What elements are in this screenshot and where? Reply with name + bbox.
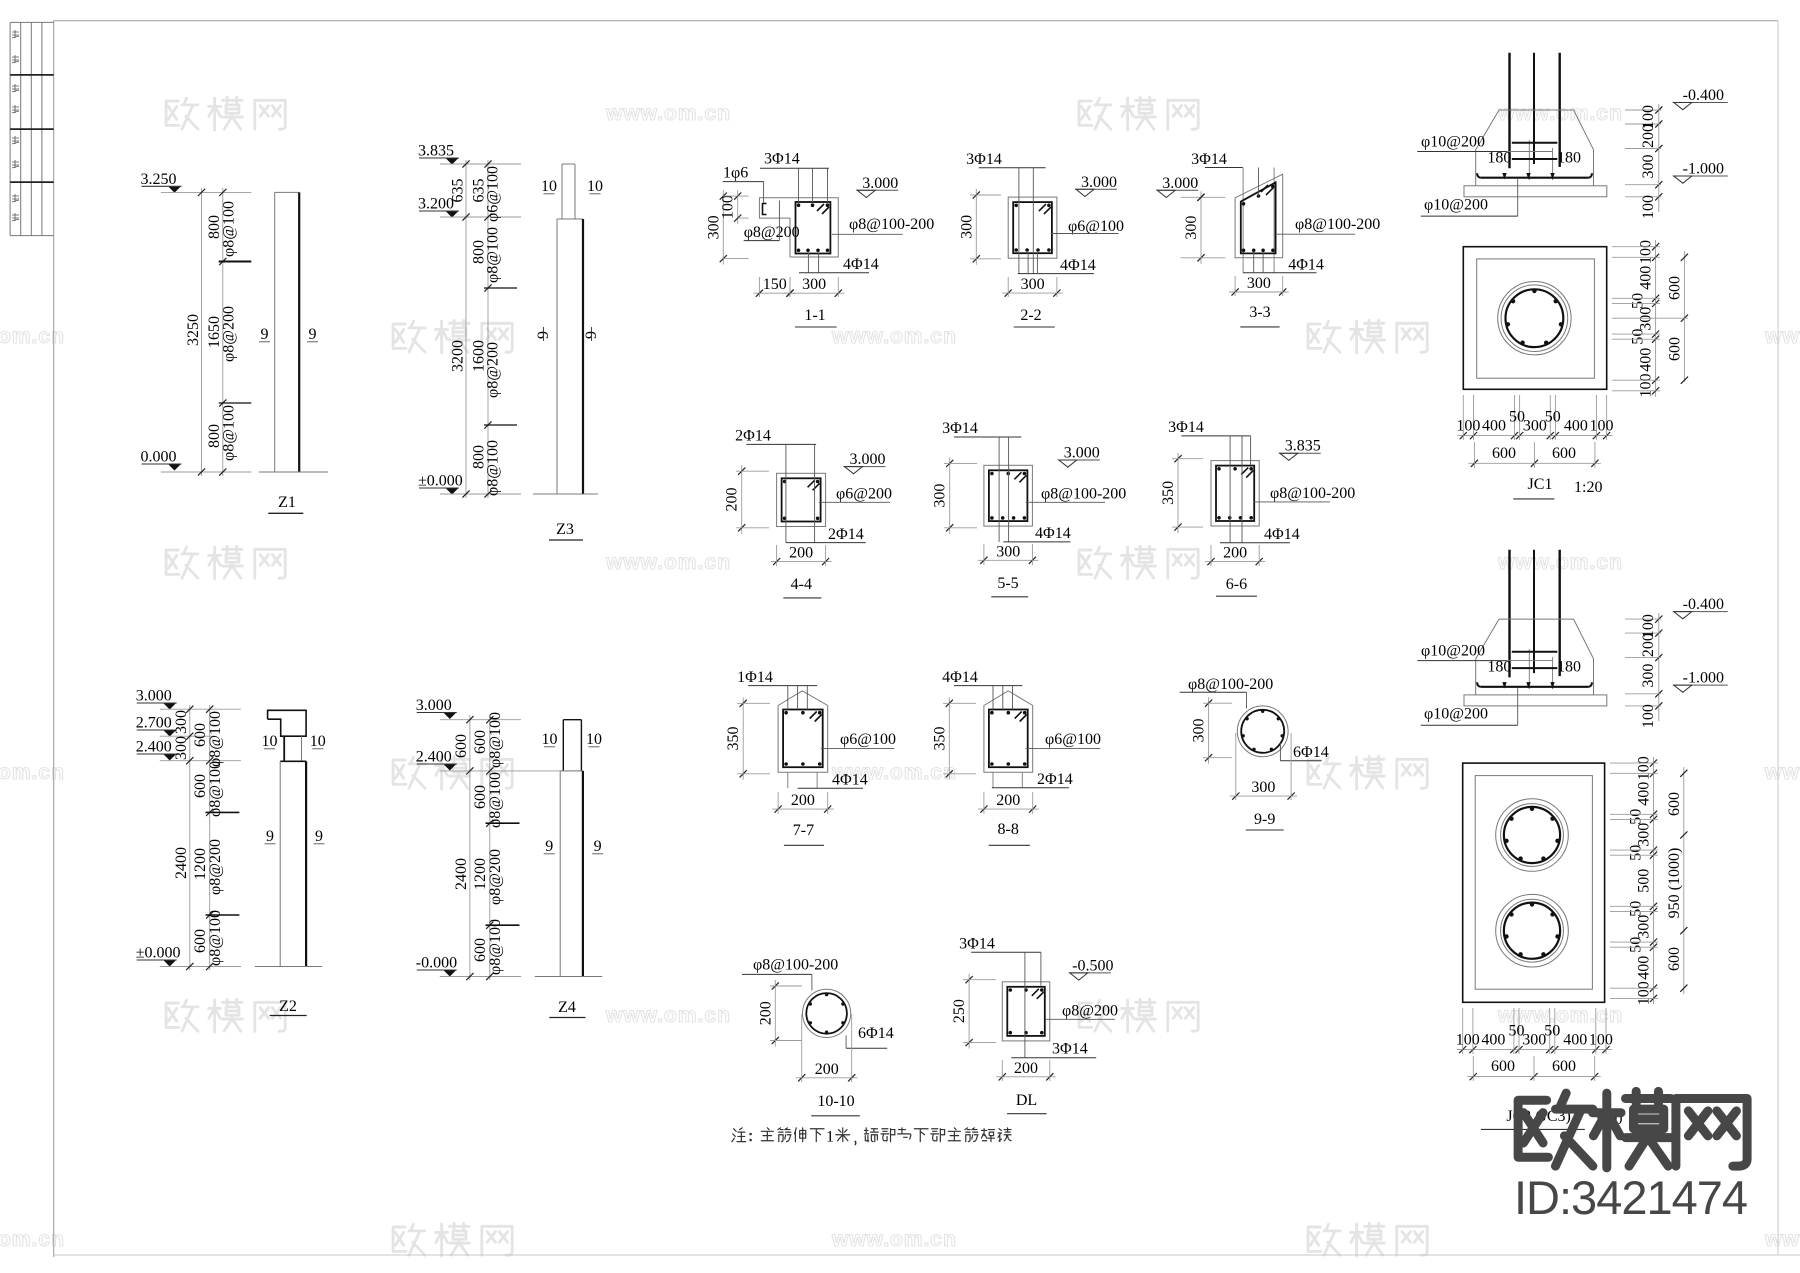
svg-text:9: 9	[309, 326, 317, 343]
svg-text:50: 50	[1630, 329, 1647, 345]
svg-text:φ6@100: φ6@100	[1068, 218, 1124, 235]
svg-text:3Φ14: 3Φ14	[1168, 419, 1204, 436]
svg-text:350: 350	[1160, 481, 1177, 505]
svg-text:4Φ14: 4Φ14	[832, 772, 868, 789]
svg-text:2Φ14: 2Φ14	[735, 428, 771, 445]
svg-text:3Φ14: 3Φ14	[1052, 1041, 1088, 1058]
svg-text:600: 600	[1552, 445, 1576, 462]
svg-text:DL: DL	[1016, 1092, 1037, 1109]
svg-text:300: 300	[1522, 1032, 1546, 1049]
svg-text:φ8@200: φ8@200	[487, 849, 504, 905]
svg-text:3.000: 3.000	[1162, 175, 1198, 192]
svg-text:300: 300	[1640, 664, 1657, 688]
svg-text:50: 50	[1630, 293, 1647, 309]
svg-text:φ8@100-200: φ8@100-200	[1041, 486, 1126, 503]
svg-text:400: 400	[1638, 348, 1655, 372]
svg-text:φ8@100: φ8@100	[221, 201, 238, 257]
svg-text:2.400: 2.400	[416, 749, 452, 766]
svg-text:0.000: 0.000	[141, 449, 177, 466]
svg-text:Z1: Z1	[278, 494, 296, 511]
svg-text:±0.000: ±0.000	[418, 473, 463, 490]
svg-text:www.om.cn: www.om.cn	[605, 102, 731, 125]
svg-text:6-6: 6-6	[1226, 576, 1247, 593]
svg-text:3250: 3250	[185, 314, 202, 346]
svg-text:200: 200	[1640, 633, 1657, 657]
svg-text:100: 100	[1640, 195, 1657, 219]
svg-text:300: 300	[1247, 275, 1271, 292]
svg-text:5-5: 5-5	[997, 575, 1018, 592]
svg-text:9: 9	[261, 326, 269, 343]
svg-text:100: 100	[1456, 1032, 1480, 1049]
svg-text:50: 50	[1628, 937, 1645, 953]
svg-text:300: 300	[1251, 779, 1275, 796]
svg-text:Z4: Z4	[558, 999, 576, 1016]
svg-text:500: 500	[1636, 869, 1653, 893]
svg-text:100: 100	[1456, 418, 1480, 435]
svg-text:2400: 2400	[453, 858, 470, 890]
svg-text:φ8@200: φ8@200	[1062, 1003, 1118, 1020]
svg-text:2400: 2400	[173, 847, 190, 879]
svg-text:-0.500: -0.500	[1072, 957, 1113, 974]
svg-text:950 (1000): 950 (1000)	[1666, 848, 1683, 919]
svg-text:400: 400	[1482, 418, 1506, 435]
svg-text:300: 300	[1636, 915, 1653, 939]
svg-text:300: 300	[1636, 823, 1653, 847]
svg-text:1φ6: 1φ6	[723, 165, 748, 182]
svg-text:φ6@100: φ6@100	[1045, 731, 1101, 748]
svg-text:φ8@100: φ8@100	[221, 405, 238, 461]
svg-text:300: 300	[958, 215, 975, 239]
svg-text:4Φ14: 4Φ14	[843, 256, 879, 273]
svg-text:10: 10	[541, 178, 557, 195]
svg-text:www.om.cn: www.om.cn	[0, 1228, 65, 1251]
svg-text:4Φ14: 4Φ14	[1060, 257, 1096, 274]
svg-text:-0.400: -0.400	[1683, 87, 1724, 104]
svg-text:10: 10	[542, 731, 558, 748]
svg-text:400: 400	[1636, 956, 1653, 980]
svg-text:φ8@100: φ8@100	[207, 761, 224, 817]
svg-text:2Φ14: 2Φ14	[1037, 771, 1073, 788]
svg-text:180: 180	[1487, 659, 1511, 676]
svg-text:50: 50	[1544, 1023, 1560, 1040]
svg-text:2Φ14: 2Φ14	[828, 526, 864, 543]
svg-text:10: 10	[587, 178, 603, 195]
svg-text:1: 1	[826, 1129, 834, 1146]
svg-text:300: 300	[1523, 418, 1547, 435]
svg-text:www.om.cn: www.om.cn	[1764, 761, 1800, 784]
svg-text:www.om.cn: www.om.cn	[0, 761, 65, 784]
svg-text:φ8@100: φ8@100	[485, 227, 502, 283]
svg-text:300: 300	[996, 543, 1020, 560]
svg-text:10: 10	[310, 733, 326, 750]
svg-text:φ8@100: φ8@100	[487, 712, 504, 768]
svg-text:φ8@200: φ8@200	[221, 306, 238, 362]
svg-text:600: 600	[1491, 1058, 1515, 1075]
svg-text:www.om.cn: www.om.cn	[0, 325, 65, 348]
svg-text:400: 400	[1481, 1032, 1505, 1049]
svg-text:50: 50	[1628, 845, 1645, 861]
svg-text:φ8@100-200: φ8@100-200	[753, 957, 838, 974]
svg-text:3.000: 3.000	[862, 175, 898, 192]
svg-text:-0.000: -0.000	[416, 955, 457, 972]
svg-text:600: 600	[453, 734, 470, 758]
svg-text:3.835: 3.835	[418, 143, 454, 160]
svg-text:180: 180	[1487, 150, 1511, 167]
svg-text:2.700: 2.700	[136, 715, 172, 732]
svg-text:3Φ14: 3Φ14	[764, 151, 800, 168]
svg-text:300: 300	[1183, 216, 1200, 240]
svg-text:www.om.cn: www.om.cn	[605, 551, 731, 574]
svg-text:200: 200	[996, 792, 1020, 809]
svg-text:1:20: 1:20	[1574, 479, 1602, 496]
svg-text:100: 100	[720, 195, 737, 219]
svg-text:300: 300	[802, 276, 826, 293]
svg-text:100: 100	[1636, 756, 1653, 780]
svg-text:φ8@100-200: φ8@100-200	[1295, 216, 1380, 233]
svg-text:4-4: 4-4	[791, 576, 812, 593]
svg-text:6Φ14: 6Φ14	[1293, 744, 1329, 761]
svg-text:600: 600	[1666, 792, 1683, 816]
svg-text:350: 350	[931, 727, 948, 751]
svg-text:300: 300	[173, 710, 190, 734]
svg-text:-1.000: -1.000	[1683, 670, 1724, 687]
svg-text:400: 400	[1563, 1032, 1587, 1049]
svg-text:200: 200	[789, 545, 813, 562]
svg-text:7-7: 7-7	[793, 822, 814, 839]
svg-text:www.om.cn: www.om.cn	[831, 1228, 957, 1251]
svg-text:±0.000: ±0.000	[136, 945, 181, 962]
svg-text:6Φ14: 6Φ14	[858, 1025, 894, 1042]
svg-text:9-9: 9-9	[1254, 811, 1275, 828]
svg-text:2-2: 2-2	[1020, 307, 1041, 324]
svg-text:Z2: Z2	[279, 998, 297, 1015]
svg-text:3.000: 3.000	[1064, 445, 1100, 462]
svg-text:φ10@200: φ10@200	[1424, 197, 1488, 214]
svg-text:3.000: 3.000	[136, 688, 172, 705]
svg-text:φ8@100: φ8@100	[487, 772, 504, 828]
svg-text:9: 9	[545, 838, 553, 855]
svg-text:4Φ14: 4Φ14	[1264, 526, 1300, 543]
svg-text:200: 200	[1223, 545, 1247, 562]
svg-text:φ8@200: φ8@200	[485, 342, 502, 398]
svg-text:9: 9	[315, 828, 323, 845]
svg-text:200: 200	[815, 1061, 839, 1078]
svg-text:3.250: 3.250	[141, 171, 177, 188]
svg-text:50: 50	[1545, 409, 1561, 426]
svg-text:4Φ14: 4Φ14	[1035, 525, 1071, 542]
svg-text:50: 50	[1628, 901, 1645, 917]
svg-text:635: 635	[450, 179, 467, 203]
svg-text:3.835: 3.835	[1285, 438, 1321, 455]
svg-text:JC1: JC1	[1528, 476, 1553, 493]
svg-text:50: 50	[1628, 809, 1645, 825]
svg-text:φ8@100-200: φ8@100-200	[1270, 485, 1355, 502]
svg-text:φ8@100: φ8@100	[487, 919, 504, 975]
svg-text:400: 400	[1638, 266, 1655, 290]
svg-text:φ8@200: φ8@200	[744, 224, 800, 241]
svg-text:100: 100	[1636, 981, 1653, 1005]
svg-text:φ8@100: φ8@100	[207, 910, 224, 966]
svg-text:3200: 3200	[450, 340, 467, 372]
svg-text:3.000: 3.000	[1081, 174, 1117, 191]
svg-text:φ8@100: φ8@100	[485, 440, 502, 496]
svg-text:600: 600	[1666, 337, 1683, 361]
svg-text:180: 180	[1557, 150, 1581, 167]
svg-text:300: 300	[1191, 719, 1208, 743]
svg-text:φ10@200: φ10@200	[1421, 643, 1485, 660]
svg-text:9: 9	[266, 828, 274, 845]
svg-text:100: 100	[1590, 418, 1614, 435]
svg-text:4Φ14: 4Φ14	[942, 669, 978, 686]
svg-text:www.om.cn: www.om.cn	[831, 325, 957, 348]
svg-text:10: 10	[586, 731, 602, 748]
svg-text:300: 300	[1021, 276, 1045, 293]
svg-text:Z3: Z3	[556, 521, 574, 538]
svg-text:φ8@100-200: φ8@100-200	[849, 216, 934, 233]
svg-text:300: 300	[1640, 155, 1657, 179]
svg-text:φ10@200: φ10@200	[1421, 134, 1485, 151]
svg-text:350: 350	[725, 727, 742, 751]
svg-text:600: 600	[1492, 445, 1516, 462]
svg-text:200: 200	[1640, 124, 1657, 148]
svg-text:100: 100	[1638, 240, 1655, 264]
svg-text:600: 600	[1552, 1058, 1576, 1075]
svg-text:2.400: 2.400	[136, 739, 172, 756]
svg-text:600: 600	[1666, 276, 1683, 300]
svg-text:100: 100	[1638, 374, 1655, 398]
svg-text:www.om.cn: www.om.cn	[1764, 325, 1800, 348]
svg-text:9: 9	[594, 838, 602, 855]
svg-text:3-3: 3-3	[1249, 304, 1270, 321]
svg-text:200: 200	[791, 792, 815, 809]
svg-text:300: 300	[932, 484, 949, 508]
svg-text:φ8@100-200: φ8@100-200	[1188, 676, 1273, 693]
svg-text:100: 100	[1640, 704, 1657, 728]
svg-text:φ10@200: φ10@200	[1424, 706, 1488, 723]
svg-text:10: 10	[262, 733, 278, 750]
svg-text:1Φ14: 1Φ14	[737, 669, 773, 686]
svg-text:3.000: 3.000	[850, 451, 886, 468]
svg-text:ID:3421474: ID:3421474	[1514, 1171, 1747, 1224]
svg-text:200: 200	[724, 488, 741, 512]
svg-text:400: 400	[1564, 418, 1588, 435]
svg-text:600: 600	[1666, 947, 1683, 971]
svg-text:3.000: 3.000	[416, 697, 452, 714]
svg-text:-1.000: -1.000	[1683, 161, 1724, 178]
svg-text:8-8: 8-8	[998, 821, 1019, 838]
svg-text:4Φ14: 4Φ14	[1288, 257, 1324, 274]
svg-text:3Φ14: 3Φ14	[959, 936, 995, 953]
svg-text:www.om.cn: www.om.cn	[1764, 1228, 1800, 1251]
svg-text:φ6@100: φ6@100	[485, 166, 502, 222]
svg-text:100: 100	[1589, 1032, 1613, 1049]
svg-text:150: 150	[763, 276, 787, 293]
svg-text:10-10: 10-10	[817, 1093, 854, 1110]
svg-text:3Φ14: 3Φ14	[966, 151, 1002, 168]
svg-text:φ6@200: φ6@200	[836, 486, 892, 503]
svg-text:φ8@100: φ8@100	[207, 711, 224, 767]
svg-text:200: 200	[757, 1001, 774, 1025]
svg-text:300: 300	[1638, 307, 1655, 331]
svg-text:φ8@200: φ8@200	[207, 839, 224, 895]
svg-text:250: 250	[951, 999, 968, 1023]
svg-text:-0.400: -0.400	[1683, 596, 1724, 613]
svg-text:1-1: 1-1	[804, 307, 825, 324]
svg-text:www.om.cn: www.om.cn	[605, 1004, 731, 1027]
svg-text:400: 400	[1636, 782, 1653, 806]
svg-text:3Φ14: 3Φ14	[942, 420, 978, 437]
svg-text:180: 180	[1557, 659, 1581, 676]
svg-text:3Φ14: 3Φ14	[1191, 151, 1227, 168]
svg-text:φ6@100: φ6@100	[840, 731, 896, 748]
svg-text:300: 300	[173, 736, 190, 760]
svg-text:200: 200	[1014, 1060, 1038, 1077]
